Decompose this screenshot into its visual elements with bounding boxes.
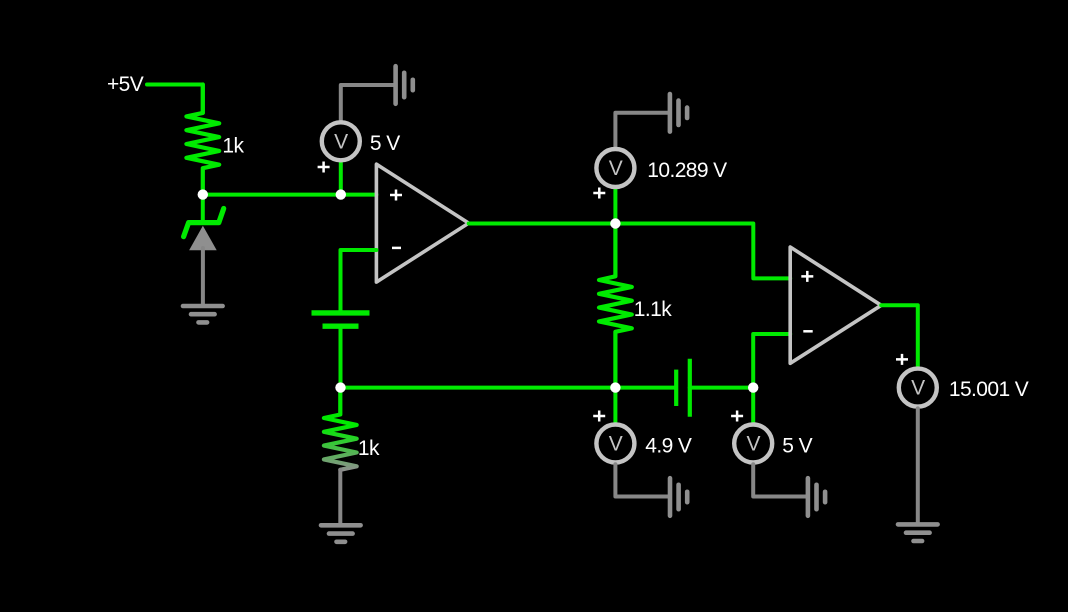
svg-text:1k: 1k [222, 134, 244, 157]
node at voltmeter M1 junction dot [336, 189, 346, 199]
wire rail node A to op-amp U1 + input [203, 193, 377, 197]
ground below zener [183, 306, 223, 322]
zener diode D1 cathode bar [184, 209, 224, 237]
voltmeter M5 [899, 369, 937, 407]
wire battery B1 to node D [339, 326, 343, 387]
wire node A down to zener cathode [201, 195, 205, 223]
voltmeter M4 plus mark [731, 411, 743, 422]
op-amp U1 [376, 164, 468, 282]
op-amp U2 minus input label [803, 330, 812, 333]
ground below R3 [321, 525, 361, 542]
voltmeter M3 wire to ground [615, 464, 668, 496]
svg-text:V: V [334, 130, 348, 153]
svg-text:1k: 1k [358, 437, 380, 460]
resistor R1 [186, 85, 219, 195]
node C junction dot [610, 382, 620, 392]
ground for voltmeter M1 [396, 66, 413, 104]
wire resistor R3 to ground [338, 470, 342, 525]
voltmeter M1 plus mark [318, 162, 330, 173]
voltmeter M1 wire to ground [341, 85, 394, 121]
zener diode D1 anode triangle [189, 226, 217, 250]
voltmeter M2 plus mark [593, 188, 605, 199]
voltmeter M4 [734, 425, 772, 463]
node B junction dot [610, 218, 620, 228]
op-amp U1 minus input label [392, 247, 401, 250]
node A junction dot [198, 189, 208, 199]
wire zener anode to ground [201, 248, 205, 306]
svg-text:5 V: 5 V [782, 434, 812, 457]
op-amp U2 [790, 247, 881, 363]
wire op-amp U1 output to node B [469, 222, 616, 226]
ground for voltmeter M4 [808, 478, 825, 516]
svg-text:V: V [746, 433, 760, 456]
voltmeter M5 plus mark [896, 354, 908, 365]
node D junction dot [335, 382, 345, 392]
voltmeter M1 [322, 122, 360, 160]
voltmeter M2 wire to node B [613, 189, 617, 224]
wire node E to op-amp U2 - input [753, 334, 790, 388]
op-amp U1 plus input label [390, 190, 402, 201]
voltmeter M2 [596, 149, 634, 187]
wire bottom rail node D to node C [341, 386, 616, 390]
op-amp U2 plus input label [801, 271, 813, 282]
svg-text:10.289 V: 10.289 V [647, 159, 727, 182]
wire op-amp U2 output to voltmeter M5 [881, 305, 918, 367]
voltmeter M1 wire to rail [339, 162, 343, 195]
battery B1 long plate [312, 310, 370, 315]
voltmeter M3 [596, 425, 634, 463]
svg-text:V: V [911, 377, 925, 400]
voltmeter M2 wire to ground [615, 113, 668, 148]
node E junction dot [748, 382, 758, 392]
ground for voltmeter M5 [898, 524, 938, 541]
voltmeter M4 wire to node E [751, 388, 755, 423]
battery B1 short plate [323, 324, 359, 329]
wire op-amp U1 - input to battery B1 [341, 250, 377, 311]
resistor R2 [599, 224, 632, 388]
voltmeter M4 wire to ground [753, 464, 806, 496]
svg-text:V: V [609, 157, 623, 180]
svg-text:1.1k: 1.1k [634, 298, 672, 321]
wire node C to battery B2 left plate [615, 386, 674, 390]
voltmeter M3 plus mark [593, 411, 605, 422]
svg-text:V: V [609, 433, 623, 456]
svg-text:5 V: 5 V [370, 132, 400, 155]
ground for voltmeter M2 [670, 94, 687, 132]
voltmeter M5 wire to ground [916, 408, 920, 523]
battery B2 short plate [674, 370, 678, 406]
wire battery B2 right plate to node E [690, 386, 753, 390]
resistor R3 [324, 388, 357, 470]
wire from +5V label to resistor R1 [147, 85, 203, 113]
svg-text:15.001 V: 15.001 V [949, 378, 1029, 401]
wire node B to op-amp U2 + input [615, 224, 790, 279]
svg-text:+5V: +5V [107, 73, 144, 96]
battery B2 long plate [688, 359, 692, 417]
svg-text:4.9 V: 4.9 V [645, 434, 692, 457]
ground for voltmeter M3 [670, 478, 687, 516]
voltmeter M3 wire to node C [613, 388, 617, 423]
